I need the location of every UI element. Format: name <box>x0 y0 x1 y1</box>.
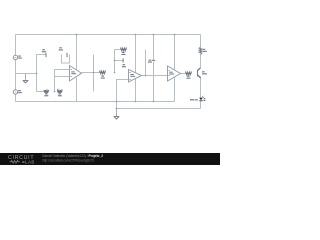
label R5 <box>187 76 190 77</box>
wire top rail <box>16 34 201 36</box>
label C3 <box>123 64 126 65</box>
wire U3 vee <box>174 77 176 101</box>
capacitor C2 plates <box>66 53 68 57</box>
transistor Q1 collector and emitter <box>198 68 201 78</box>
label V2 <box>18 90 21 91</box>
label Q1 <box>202 71 205 72</box>
label C4 <box>149 60 152 61</box>
footer logo zigzag <box>10 160 20 163</box>
source V2 <box>13 90 17 94</box>
label R4 <box>122 52 125 53</box>
label D1 right <box>204 98 206 99</box>
label U3 <box>169 72 172 73</box>
ground mid bottom stub <box>116 109 118 117</box>
wire C4 branch from top rail <box>153 35 155 61</box>
wire R6 bottom to collector <box>200 55 202 68</box>
LED D1 <box>199 98 203 102</box>
label U1 <box>71 71 74 72</box>
wire U3 vcc <box>174 35 176 70</box>
wire bottom rail <box>16 101 175 103</box>
wire C4 to U3 minus input jog <box>153 62 155 102</box>
wire U1 vcc <box>76 35 78 71</box>
resistor R1 <box>44 90 49 93</box>
wire U2 plus input jog to ground <box>117 80 129 109</box>
label R3 <box>101 76 104 77</box>
op-amp U2 pin marks <box>129 71 130 74</box>
wire U1 vee <box>76 78 78 102</box>
label R1 <box>45 93 48 94</box>
ground at input tee arrow <box>23 81 28 83</box>
footer bar <box>0 153 220 165</box>
wire emitter to LED <box>200 78 202 98</box>
op-amp U3 <box>168 66 181 81</box>
label D1 left <box>190 99 194 100</box>
wire U1 output row <box>82 72 100 74</box>
label C1 <box>42 49 45 50</box>
op-amp U1 pin marks <box>70 68 71 71</box>
op-amp U1 <box>70 66 82 82</box>
LED light arrows <box>202 96 204 98</box>
label U2 <box>130 74 133 75</box>
resistor R4 <box>121 48 127 51</box>
labels <box>18 47 207 101</box>
capacitor C4 plates <box>152 59 155 61</box>
resistor R2 <box>57 90 62 93</box>
wire R6 top lead <box>200 35 202 48</box>
wire U2 vee <box>135 79 137 102</box>
transistor Q1 emitter arrow <box>199 76 201 78</box>
wire U3 output to base <box>181 73 186 75</box>
junction dots <box>36 34 176 110</box>
op-amp U3 pin marks <box>168 69 169 72</box>
label V1 <box>18 56 21 57</box>
wire U2 feedback R row <box>115 49 121 51</box>
wire V2 to bottom rail <box>15 94 17 101</box>
capacitor C1 plates <box>45 53 47 57</box>
capacitor C3 plates <box>122 58 124 62</box>
wire ground tee <box>16 73 37 75</box>
wire LED to bottom row <box>200 101 202 109</box>
wire feedback dip loop <box>62 55 70 64</box>
wire LED bottom row <box>117 108 201 110</box>
wire U1 plus input <box>55 76 70 78</box>
transistor Q1 <box>197 70 199 77</box>
wire resistor row <box>37 91 44 93</box>
wire feedback down leg <box>93 55 95 92</box>
source V1 <box>13 55 17 59</box>
ground at input tee stub <box>25 74 27 81</box>
label C2 <box>59 47 62 48</box>
wire U2 vcc <box>135 35 137 73</box>
wire U2 feedback C row <box>115 60 123 62</box>
resistor R3 <box>100 71 106 74</box>
wire left rail upper <box>15 35 17 56</box>
source V1 sine mark <box>14 57 16 58</box>
wire U1 input vertical <box>54 70 56 92</box>
label R2 <box>58 93 61 94</box>
resistor R5 <box>186 72 192 75</box>
source V2 sine mark <box>14 91 16 92</box>
wire U2 feedback left leg <box>114 50 116 73</box>
wire U2 output row <box>142 75 168 77</box>
svg-text:http://circuitlab.com/c/57Ncue: http://circuitlab.com/c/57Ncuehg5z7b <box>42 159 94 163</box>
label R6 <box>203 49 206 50</box>
wire V1 to V2 <box>15 60 17 90</box>
resistor R6 vertical <box>199 48 202 55</box>
op-amp U2 <box>129 70 142 83</box>
wire U1 minus input <box>55 69 70 71</box>
wire U2 feedback right leg <box>145 50 147 76</box>
ground mid bottom arrow <box>114 117 119 120</box>
wire input splitter vertical <box>36 55 38 92</box>
wire caps top row <box>37 54 46 56</box>
svg-text:≡LAB: ≡LAB <box>22 160 35 165</box>
